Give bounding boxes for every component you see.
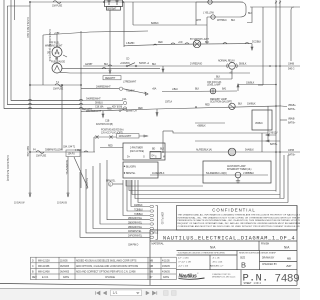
svg-text:5AL/RED/BLK +W(D): 5AL/RED/BLK +W(D) <box>206 172 227 175</box>
wire J-BA/BN to BY switch row <box>124 44 252 46</box>
wire hook x252 <box>247 7 252 23</box>
svg-text:+KD/VRN: +KD/VRN <box>120 63 130 65</box>
junction y66 x270 <box>269 65 271 67</box>
connector bracket <box>156 206 158 240</box>
relay media2 <box>228 148 236 156</box>
wire solenoid row y152 <box>150 151 300 153</box>
svg-text:MIN-11958: MIN-11958 <box>38 266 50 268</box>
switch contacts y111 <box>119 110 121 112</box>
svg-text:4 RED: 4 RED <box>75 150 82 152</box>
tolerance divider line <box>177 254 238 256</box>
tolerance col divider <box>236 251 238 270</box>
svg-text:OFF (NO FLD): OFF (NO FLD) <box>207 82 222 84</box>
hop y44 a <box>171 43 175 44</box>
svg-text:5W/CH +1: 5W/CH +1 <box>139 63 150 65</box>
svg-text:2B0/GRN/YEL: 2B0/GRN/YEL <box>128 227 143 229</box>
svg-text:7CB/BLK: 7CB/BLK <box>134 209 143 211</box>
harness wire row1 3A8/BLK <box>131 180 150 207</box>
svg-text:30/BRN/YEL(15A): 30/BRN/YEL(15A) <box>45 149 63 152</box>
svg-text:06/03/05: 06/03/05 <box>60 266 70 268</box>
wire stub x133 <box>132 2 134 25</box>
svg-text:12V ACC PLUG (OPT): 12V ACC PLUG (OPT) <box>101 131 123 134</box>
tolerance mid divider <box>209 255 211 270</box>
junction y107 x196 <box>195 106 197 108</box>
rev row line 1 <box>31 262 177 264</box>
wire top lamp loop upper <box>196 2 246 17</box>
svg-text:BLK: BLK <box>152 64 157 66</box>
svg-text:WARNING LIGHT: WARNING LIGHT <box>45 45 63 48</box>
wire left bus 2 <box>7 6 80 105</box>
svg-text:WHT: WHT <box>196 20 202 22</box>
hop y66 <box>108 65 112 66</box>
svg-text:ADDED 4D (5UA) & DIESELIZE (WS: ADDED 4D (5UA) & DIESELIZE (WSL) AND COR… <box>76 259 137 262</box>
junction y152 x276 <box>275 151 277 153</box>
stub right y120 <box>280 119 287 121</box>
svg-text:ANGLES ± 2°: ANGLES ± 2° <box>210 265 224 268</box>
svg-text:BAT B+: BAT B+ <box>270 143 278 146</box>
wire T1 fuse row <box>30 84 80 86</box>
svg-text:BLU/GRN: BLU/GRN <box>126 166 136 168</box>
arrow stub y66 <box>162 66 164 72</box>
wire loop y194.5 <box>132 180 280 195</box>
tolerance row line <box>177 250 298 252</box>
svg-text:10 BLU/WHT: 10 BLU/WHT <box>119 136 132 138</box>
svg-text:SOLITRON (5A) (OPT): SOLITRON (5A) (OPT) <box>210 101 232 104</box>
connector box C84 <box>66 150 80 157</box>
harness wire row3 7CB/BLK <box>123 180 150 216</box>
junction T1 row <box>29 84 31 86</box>
junction x80 y85 <box>80 84 82 86</box>
svg-text:FUSE BLOCK BUS (RED): FUSE BLOCK BUS (RED) <box>6 155 9 181</box>
junction y152 x163 <box>162 151 164 153</box>
relay normal <box>229 62 236 69</box>
svg-text:RED: RED <box>205 105 210 107</box>
svg-text:L7/RED/WHT: L7/RED/WHT <box>123 81 137 83</box>
wire loop y141b <box>195 140 268 142</box>
sheet bottom border left <box>0 284 150 286</box>
svg-text:+KD: +KD <box>178 42 183 44</box>
svg-text:DATE: DATE <box>63 276 69 279</box>
svg-text:TOLERANCES UNLESS OTHERWISE SP: TOLERANCES UNLESS OTHERWISE SPECIFIED <box>178 252 226 255</box>
wire loop right vertical x284 <box>283 155 285 199</box>
drawn row line <box>260 261 298 263</box>
svg-text:MB: MB <box>150 260 154 262</box>
svg-text:C84, C44 T1: C84, C44 T1 <box>63 147 76 149</box>
svg-text:REQUEST OF NAUTILUS INTERNATIO: REQUEST OF NAUTILUS INTERNATIONAL, INC. … <box>178 222 301 225</box>
svg-text:L 5/BB/BLK: L 5/BB/BLK <box>243 173 254 175</box>
wire vertical x43 <box>42 35 44 85</box>
button last page <box>153 291 157 295</box>
svg-text:CD: CD <box>126 59 130 61</box>
svg-text:2YB/12V: 2YB/12V <box>269 133 278 135</box>
button next page <box>146 291 149 295</box>
harness wire row2 7CB/BLK <box>127 180 150 211</box>
junction y152 x280 <box>279 151 281 153</box>
junction y66 x280 <box>279 65 281 67</box>
wire stub x262 <box>261 133 263 152</box>
svg-text:INTERRUPT TIMER (UL): INTERRUPT TIMER (UL) <box>227 169 252 171</box>
svg-text:BLK: BLK <box>231 20 236 22</box>
lamp level <box>210 88 216 94</box>
rev row line 3 <box>31 273 177 275</box>
svg-text:BY SWITCH LIGHT: BY SWITCH LIGHT <box>190 39 210 41</box>
svg-text:BLK: BLK <box>104 64 109 66</box>
wire gauge out lower <box>60 71 250 74</box>
svg-text:(KEY ACTIVE): (KEY ACTIVE) <box>130 150 144 153</box>
svg-text:BAT/BAT: BAT/BAT <box>108 8 117 11</box>
svg-text:TITLE: TITLE <box>152 231 159 234</box>
svg-text:BA/BLK: BA/BLK <box>151 22 159 25</box>
svg-text:RED: RED <box>107 109 112 111</box>
lamp media <box>229 103 235 109</box>
wire loop y133 <box>173 131 268 133</box>
svg-text:VBA/B: VBA/B <box>288 118 295 121</box>
fuse 15A mid <box>55 84 63 87</box>
svg-text:7489: 7489 <box>275 273 300 285</box>
wire branch x291 <box>291 7 294 61</box>
wire RED stub to timer <box>100 147 123 149</box>
svg-text:FINISH: FINISH <box>261 243 269 246</box>
confidential box <box>177 206 298 231</box>
svg-text:BD: BD <box>152 149 155 151</box>
rev col line d <box>147 257 149 279</box>
svg-text:DRAWN BY: DRAWN BY <box>262 256 275 259</box>
wire box stub left <box>113 183 123 185</box>
svg-text:4/11/05: 4/11/05 <box>162 260 170 262</box>
wire loop y186 to aux box <box>126 180 203 186</box>
svg-text:(C84 PLUG): (C84 PLUG) <box>161 212 164 224</box>
svg-text:IGNITION ON (B): IGNITION ON (B) <box>96 124 113 126</box>
wire right bus B x280 <box>279 0 281 198</box>
svg-text:WHT/BLK: WHT/BLK <box>217 20 227 22</box>
svg-text:N/A: N/A <box>284 246 290 250</box>
svg-text:MINNEAPOLIS, MN 554-45: MINNEAPOLIS, MN 554-45 <box>212 276 235 279</box>
harness wire row8 2AF/GRN/YEL <box>80 172 150 237</box>
grayed icon 1 <box>164 291 169 296</box>
svg-text:SWITCH: SWITCH <box>128 111 137 113</box>
wire key bus row2 <box>7 104 123 106</box>
svg-text:2AF/GRN/YEL: 2AF/GRN/YEL <box>128 235 143 238</box>
contact x <box>96 136 113 139</box>
svg-text:1/1: 1/1 <box>113 291 118 295</box>
svg-text:10A/BLK: 10A/BLK <box>247 102 256 105</box>
wire BA/BLK drop to lamp row <box>206 25 208 44</box>
svg-text:RED: RED <box>158 42 163 44</box>
svg-text:MB: MB <box>150 272 154 274</box>
svg-text:MEDIA/BY LAMP: MEDIA/BY LAMP <box>210 98 227 101</box>
hops right bus top <box>275 1 281 3</box>
svg-text:A2/VBT: A2/VBT <box>85 63 93 66</box>
svg-text:B GRN/YEL: B GRN/YEL <box>85 178 88 191</box>
stub right y107 <box>281 105 287 108</box>
svg-text:30A FUSE: 30A FUSE <box>26 146 29 157</box>
svg-text:OFF FUEL: OFF FUEL <box>49 43 60 45</box>
svg-text:3A6/RED/WHT: 3A6/RED/WHT <box>86 98 101 101</box>
svg-text:0-7" ± 1/16: 0-7" ± 1/16 <box>178 258 189 260</box>
fuse pin T1 in box <box>108 1 111 5</box>
label box RED/WHT <box>103 76 121 80</box>
stub arrow y141 <box>266 140 280 142</box>
pn divider <box>240 270 242 286</box>
junction at bat box left <box>103 1 105 3</box>
junction at bat box right <box>122 1 124 3</box>
hop y44 c <box>185 43 189 44</box>
svg-text:ADD AND CORRECT OPTIONS PER MF: ADD AND CORRECT OPTIONS PER MFG E.C.N. 1… <box>76 271 136 274</box>
svg-text:BAT B+: BAT B+ <box>288 108 296 111</box>
material finish divider <box>258 241 260 251</box>
svg-text:4/06/05: 4/06/05 <box>162 272 170 274</box>
harness wire row5 2B0/GRN/YEL <box>100 163 150 224</box>
wire BLK stub under relay <box>214 78 232 80</box>
svg-text:LEVEL LAMP: LEVEL LAMP <box>207 84 221 87</box>
svg-text:RED WHT: RED WHT <box>82 109 93 111</box>
switch CD contacts <box>126 65 128 67</box>
hops over x30 <box>28 99 32 108</box>
svg-text:ADD OPTIONS, 4 GAUGE AND LOOM: ADD OPTIONS, 4 GAUGE AND LOOM W/CONN OPT… <box>76 265 139 268</box>
svg-text:BY: BY <box>150 277 154 279</box>
title row line <box>150 229 297 231</box>
wire key switch row sloped <box>81 106 281 111</box>
wire gauge out upper <box>62 68 160 70</box>
hop y44 d <box>245 43 249 44</box>
junction x30 y152 <box>29 151 31 153</box>
arrow 5CC drop <box>251 44 253 50</box>
svg-text:C84 PIN D: C84 PIN D <box>128 245 139 247</box>
connector box BAT/BAT <box>105 0 123 7</box>
lamp top2 <box>211 15 215 19</box>
svg-text:MIN-12128: MIN-12128 <box>38 260 50 262</box>
wire loop y198.5 <box>135 180 284 199</box>
svg-text:C18 16A: C18 16A <box>95 105 104 108</box>
svg-text:BLK: BLK <box>160 149 165 151</box>
label 10 BLU/WHT <box>117 134 140 138</box>
svg-text:DATE: DATE <box>163 276 169 279</box>
svg-text:10-RED/BLK: 10-RED/BLK <box>152 173 165 175</box>
svg-text:2B0/GRN/YEL: 2B0/GRN/YEL <box>128 222 143 224</box>
connector G circle <box>108 182 112 186</box>
toolbar strip <box>0 289 300 300</box>
svg-text:AL/RED/BLK (A): AL/RED/BLK (A) <box>196 149 212 152</box>
svg-text:15A FUSE: 15A FUSE <box>36 155 47 158</box>
wire key bus row3 <box>4 108 123 110</box>
svg-text:VD/BLK: VD/BLK <box>255 123 263 125</box>
lamp top1 <box>208 0 212 4</box>
svg-text:2-PIN TIMER: 2-PIN TIMER <box>130 148 143 150</box>
wire left bus 4 short <box>14 0 16 20</box>
rev row line 2 <box>31 267 177 269</box>
junction top of battery bus <box>29 1 31 3</box>
arrow up x238 <box>237 85 239 92</box>
wire top feed horizontal <box>30 1 243 3</box>
svg-text:3A8/BLK: 3A8/BLK <box>134 204 143 207</box>
svg-text:N/A: N/A <box>210 246 216 250</box>
wire row y152 left <box>30 151 95 153</box>
svg-text:3/06/05: 3/06/05 <box>162 266 170 268</box>
box aux start lamp <box>203 161 271 183</box>
button prev page <box>103 291 106 295</box>
svg-text:CONFIDENTIAL AND MUST NOT BE D: CONFIDENTIAL AND MUST NOT BE DISCLOSED O… <box>178 225 301 228</box>
wire left bus 3 <box>11 0 80 101</box>
svg-text:5B BLK: 5B BLK <box>239 63 247 65</box>
arrow drop x157 <box>156 109 158 116</box>
harness wire row7 3W/GRN/YEL <box>86 169 150 233</box>
svg-text:MATERIAL: MATERIAL <box>152 243 165 246</box>
tolerance table text <box>178 258 224 268</box>
arrow bat wire <box>109 70 111 74</box>
svg-text:BRN/YEL: BRN/YEL <box>106 181 116 183</box>
svg-text:06/04/05: 06/04/05 <box>60 272 70 274</box>
svg-text:FUS BLK B/C 1 RED: FUS BLK B/C 1 RED <box>26 17 29 38</box>
junction x62 y85 <box>61 84 63 86</box>
svg-text:MB: MB <box>150 266 154 268</box>
wire loop y190.5 <box>129 180 276 191</box>
svg-text:15A FU: 15A FU <box>68 153 76 156</box>
hops over x81 <box>79 99 83 108</box>
pn row line <box>177 269 298 271</box>
svg-text:5AA/BLK: 5AA/BLK <box>245 149 254 152</box>
svg-text:100/BLK: 100/BLK <box>246 82 255 84</box>
arrow drop y112 <box>102 111 104 117</box>
junction media row x276 <box>275 105 277 107</box>
hop x155 <box>153 44 157 45</box>
svg-text:BAT B+: BAT B+ <box>288 122 296 125</box>
svg-text:1 MARINE POINT RD: 1 MARINE POINT RD <box>212 273 231 276</box>
svg-text:.X ± .05: .X ± .05 <box>212 258 220 260</box>
revision table outline <box>31 257 177 279</box>
page input box <box>111 290 142 296</box>
svg-text:CONFIDENTIAL: CONFIDENTIAL <box>212 207 256 212</box>
svg-text:BU: BU <box>47 51 50 54</box>
pins harness <box>150 205 154 207</box>
size col divider <box>259 251 261 270</box>
svg-text:15A FUSE: 15A FUSE <box>52 5 63 8</box>
svg-text:>7"-12" ± 1/8: >7"-12" ± 1/8 <box>178 261 191 264</box>
svg-text:BLK: BLK <box>238 104 243 106</box>
svg-text:PERMISSION OF NAUTILUS INTERNA: PERMISSION OF NAUTILUS INTERNATIONAL, IN… <box>178 219 301 222</box>
wire right top feed <box>250 6 300 8</box>
wire key bus row1 <box>11 100 123 102</box>
wire from bat box down-left <box>109 10 111 70</box>
wire 2A8/RED/WHT row <box>81 88 120 90</box>
svg-text:C3A: C3A <box>122 98 127 101</box>
wire YEL/BLK diagonal <box>123 89 146 94</box>
svg-text:BLK: BLK <box>195 89 200 91</box>
arrow YEL/BLK <box>145 92 148 95</box>
title block frame <box>296 206 298 286</box>
svg-text:YEL/BLK: YEL/BLK <box>126 91 135 93</box>
wire +5B/BLK stub <box>195 122 225 124</box>
svg-text:JMP: JMP <box>286 264 291 268</box>
wire x95 drop <box>93 137 95 152</box>
wire 10 GAU B drop <box>67 157 69 194</box>
hop y152 x88 <box>84 151 88 152</box>
arrow 10 BLU/WHT <box>139 135 148 137</box>
svg-text:11/6/05: 11/6/05 <box>60 260 68 262</box>
svg-text:10 GAU W: 10 GAU W <box>14 202 25 205</box>
grayed icon 2 <box>172 291 177 296</box>
arrow 10 GAU W <box>29 193 31 197</box>
wire x268 drop <box>267 106 269 120</box>
svg-text:B: B <box>241 261 246 270</box>
twist connector C3A <box>123 101 126 104</box>
svg-text:G: G <box>143 157 145 159</box>
svg-text:POSITIVE (KEYED B+): POSITIVE (KEYED B+) <box>101 130 124 132</box>
ground aux <box>236 178 240 183</box>
svg-text:DK/BLU: DK/BLU <box>95 102 103 104</box>
arrow 10 GAU B <box>67 193 69 197</box>
svg-text:L/BLK: L/BLK <box>172 89 178 91</box>
svg-text:5AE G: 5AE G <box>288 68 295 71</box>
svg-text:MB: MB <box>287 256 291 260</box>
svg-text:2A8/RED/WHT: 2A8/RED/WHT <box>96 86 111 89</box>
svg-text:3W/GRN/YEL: 3W/GRN/YEL <box>128 231 142 233</box>
svg-text:KEY (IGN): KEY (IGN) <box>112 106 122 108</box>
svg-text:RED: RED <box>138 108 143 110</box>
svg-text:J-BA/BN: J-BA/BN <box>126 42 135 45</box>
svg-text:10 GAU B: 10 GAU B <box>57 202 67 205</box>
component box VD/BLK <box>252 110 272 130</box>
svg-text:SIZE: SIZE <box>240 257 246 259</box>
svg-text:C1B: C1B <box>105 121 110 123</box>
wire branch x263 <box>262 7 264 85</box>
fuse F4 <box>36 151 44 154</box>
svg-text:BRN/YEL: BRN/YEL <box>126 173 136 175</box>
wire right bus A x276 <box>275 0 277 192</box>
wire x62 drop <box>61 85 63 150</box>
svg-text:INTERNATIONAL, INC. THE DRAWIN: INTERNATIONAL, INC. THE DRAWING IS NOT T… <box>178 216 301 219</box>
wire diagonal <box>74 157 88 188</box>
fuse pin T2 in box <box>116 1 119 5</box>
wire stub x263 y85 <box>258 84 263 86</box>
wire lamp left drop1 <box>195 2 197 25</box>
svg-text:5CC/BLK: 5CC/BLK <box>252 42 262 44</box>
wire +VBT row <box>43 31 148 35</box>
wire aux row y176 <box>150 174 268 176</box>
svg-text:NORMAL RELAY: NORMAL RELAY <box>218 60 235 63</box>
wire stub x268b <box>267 120 269 141</box>
svg-text:BLK: BLK <box>205 42 210 44</box>
connector box BLU/GRN <box>123 162 158 178</box>
wire loop right vertical x288 <box>287 155 289 203</box>
wire lamp row y91 <box>162 90 237 93</box>
svg-text:7CB/BLK: 7CB/BLK <box>134 214 143 216</box>
svg-text:THE DRAWING AND ALL INFORMATIO: THE DRAWING AND ALL INFORMATION CONTAINE… <box>178 214 301 217</box>
rev col line c <box>74 257 76 279</box>
rev col line a <box>35 257 37 279</box>
lamp aux <box>235 172 241 178</box>
wire relay coil drop <box>231 69 233 79</box>
wire left bus 1 <box>4 0 80 109</box>
wire between gauges <box>56 57 58 63</box>
wire J-BA/BN drop <box>123 2 125 47</box>
svg-text:+5B/BLK: +5B/BLK <box>197 126 206 128</box>
svg-text:BAT B+: BAT B+ <box>288 154 296 157</box>
svg-text:BLK: BLK <box>216 77 221 79</box>
harness wire row4 2B0/GRN/YEL <box>107 160 150 220</box>
svg-text:+BA: +BA <box>152 88 157 91</box>
svg-text:NAUTILUS_ELECTRICAL_DIAGRAM_1_: NAUTILUS_ELECTRICAL_DIAGRAM_1_OF_4 <box>163 235 295 241</box>
svg-text:10H/B: 10H/B <box>288 64 295 66</box>
wire key gnd row y135 <box>94 136 116 138</box>
junction y66 x276 <box>275 65 277 67</box>
wire level row upper right <box>238 84 276 86</box>
box 2-pin timer <box>123 143 165 160</box>
dropdown arrow <box>136 292 140 294</box>
svg-text:3RD/BRN/YEL: 3RD/BRN/YEL <box>65 160 68 175</box>
svg-text:REV: REV <box>32 277 37 279</box>
svg-text:REMOVE BURRS AND BREAK SHARP: REMOVE BURRS AND BREAK SHARP <box>239 252 277 255</box>
harness wire row6 2B0/GRN/YEL <box>93 166 150 229</box>
